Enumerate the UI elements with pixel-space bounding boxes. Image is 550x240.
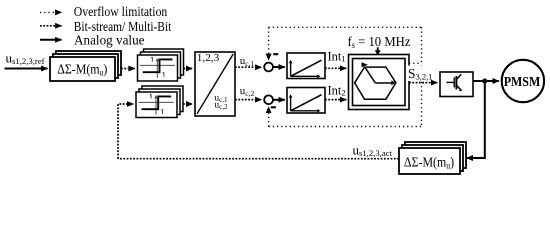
wire integrator1 to hexagon block (bit-stream) <box>325 67 346 69</box>
wire fs clock arrow (analog) <box>375 47 381 55</box>
wire limiter2 to transform (bit-stream) <box>183 103 192 105</box>
svg-text:fs = 10 MHz: fs = 10 MHz <box>348 35 411 50</box>
delta-sigma modulator block DSM-ref (stack) <box>50 51 121 81</box>
legend analog arrow <box>40 39 62 41</box>
overflow arrow into summer2 <box>268 107 270 127</box>
wire integrator2 to hexagon block (bit-stream) <box>325 99 346 101</box>
wire inverter to PMSM (analog) <box>473 80 499 82</box>
integrator block Int1 <box>287 53 325 79</box>
hexagon quantizer block <box>349 55 410 110</box>
wire transform to summer1 (bit-stream) <box>235 66 262 68</box>
node S321 label <box>408 66 437 82</box>
legend bit-stream arrow <box>40 25 62 27</box>
integrator block Int2 <box>287 88 325 114</box>
transform block 1,2,3 to uc1 uc2 <box>195 52 235 116</box>
delta-sigma modulator block DSM-act (stack) <box>399 142 466 174</box>
overflow stub from hexagon block <box>409 62 422 64</box>
wire transform to summer2 (bit-stream) <box>235 99 262 101</box>
overflow loop right edge <box>421 27 423 126</box>
svg-text:1,2,3: 1,2,3 <box>197 52 220 64</box>
wire hexagon to inverter (bit-stream) <box>409 82 437 84</box>
svg-text:PMSM: PMSM <box>504 74 541 89</box>
junction node <box>482 79 487 84</box>
wire DSM-ref to limiter1 (bit-stream) <box>121 68 135 70</box>
wire feedback to DSM-act (analog) <box>467 81 485 158</box>
svg-text:Overflow limitation: Overflow limitation <box>74 5 168 20</box>
minus sign at summer1 <box>273 53 278 55</box>
overflow loop top edge <box>269 26 422 28</box>
inverter block (IGBT) <box>440 72 473 97</box>
summer node 2 <box>264 95 273 104</box>
overflow loop bottom edge <box>269 126 422 128</box>
limiter block L2 (stack) <box>136 86 183 118</box>
wire summer2 to integrator2 (analog) <box>273 99 285 101</box>
wire limiter1 to transform (bit-stream) <box>184 68 193 70</box>
wire u_s123act (bit-stream) <box>118 158 399 160</box>
minus sign at summer2 <box>271 106 276 108</box>
wire u_s123ref analog arrow <box>5 68 48 70</box>
motor PMSM <box>502 60 544 102</box>
summer node 1 <box>264 63 273 72</box>
svg-text:Analog value: Analog value <box>74 34 145 49</box>
wire u_s123act up-segment into limiter2 (bit-stream) <box>118 104 133 159</box>
overflow arrow into summer1 <box>268 27 270 60</box>
legend overflow arrow <box>40 11 62 13</box>
wire summer1 to integrator1 (analog) <box>273 66 285 68</box>
limiter block L1 (stack) <box>138 49 184 81</box>
